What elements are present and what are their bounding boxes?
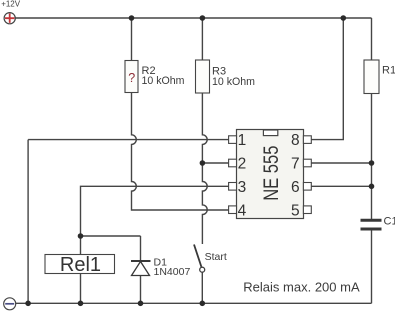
wire R2 column bottom with hops, turns right to pin 4 bbox=[132, 93, 229, 211]
svg-text:2: 2 bbox=[238, 156, 247, 173]
wire pin 7 to R1 column bbox=[311, 162, 371, 164]
wire bottom rail bbox=[16, 302, 372, 304]
diode D1 bbox=[131, 261, 151, 276]
svg-text:C1: C1 bbox=[384, 216, 395, 228]
wire pin 2 stub link bbox=[202, 162, 228, 164]
capacitor C1 bbox=[361, 220, 382, 229]
resistor R2 bbox=[125, 61, 138, 93]
wire R1 column top bbox=[371, 18, 373, 60]
wire switch to minus rail bbox=[201, 272, 203, 303]
wire R3 column: box to pin2 node bbox=[202, 93, 207, 163]
svg-text:?: ? bbox=[128, 71, 135, 85]
svg-text:5: 5 bbox=[291, 202, 300, 219]
svg-text:+12V: +12V bbox=[1, 0, 21, 8]
relay Rel1 box bbox=[45, 255, 115, 274]
svg-text:10 kOhm: 10 kOhm bbox=[142, 75, 185, 87]
op-amp U1 NE 555 body bbox=[237, 130, 304, 219]
wire pin 6 to R1 column bbox=[311, 185, 371, 187]
wire R1 bottom to C1 bbox=[371, 94, 373, 220]
svg-text:NE 555: NE 555 bbox=[260, 146, 284, 201]
svg-text:4: 4 bbox=[238, 202, 247, 219]
wire R3 column: pin2 node down to switch bbox=[202, 163, 207, 244]
resistor R1 bbox=[364, 60, 379, 94]
wire pin 8 up to top rail bbox=[311, 18, 343, 140]
pin numbers bbox=[238, 132, 300, 219]
svg-text:3: 3 bbox=[238, 179, 247, 196]
svg-text:R1: R1 bbox=[382, 65, 395, 77]
wire top rail +12V bbox=[15, 17, 371, 19]
resistor R3 bbox=[196, 60, 210, 93]
battery plus terminal bbox=[4, 13, 15, 24]
svg-text:10 kOhm: 10 kOhm bbox=[212, 76, 255, 88]
wire C1 bottom to rail bbox=[371, 231, 373, 304]
wire R3 column top bbox=[201, 18, 203, 60]
svg-text:7: 7 bbox=[291, 156, 300, 173]
pin stubs left bbox=[229, 136, 312, 214]
wire Rel1 to minus rail bbox=[80, 274, 82, 304]
svg-text:6: 6 bbox=[291, 179, 300, 196]
svg-text:1: 1 bbox=[238, 132, 247, 149]
svg-text:8: 8 bbox=[291, 132, 300, 149]
wire diode to minus rail bbox=[140, 276, 142, 304]
wire diode column top bbox=[140, 236, 142, 261]
wire relay node down to Rel1 bbox=[80, 236, 82, 255]
svg-text:1N4007: 1N4007 bbox=[154, 266, 191, 278]
wire left column down to minus rail bbox=[27, 140, 29, 304]
svg-text:Rel1: Rel1 bbox=[60, 254, 101, 276]
notch bbox=[263, 130, 277, 136]
wire pin 1 to left column bbox=[28, 139, 229, 141]
wire R2 column top bbox=[131, 18, 133, 61]
battery minus terminal bbox=[4, 298, 16, 310]
svg-text:Relais max. 200 mA: Relais max. 200 mA bbox=[243, 280, 360, 295]
svg-text:Start: Start bbox=[205, 251, 227, 263]
wire pin 3 to relay node bbox=[81, 186, 229, 236]
switch Start bbox=[194, 245, 205, 273]
wire relay node to diode column bbox=[81, 235, 141, 237]
